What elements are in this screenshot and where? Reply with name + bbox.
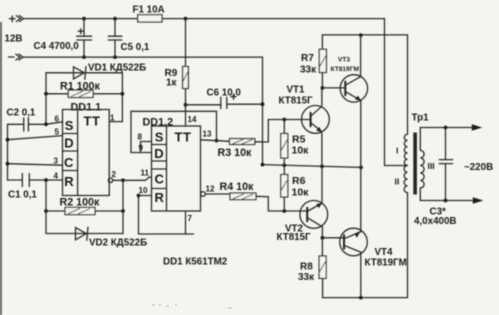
svg-text:S: S: [65, 118, 74, 133]
wire VD1/R1 left vertical: [45, 73, 47, 125]
capacitor C2: [7, 108, 48, 132]
svg-text:R7: R7: [301, 53, 314, 64]
resistor R6: [281, 165, 309, 211]
svg-text:S: S: [155, 130, 164, 145]
svg-text:9: 9: [139, 144, 144, 153]
wire upper feed line: [322, 35, 407, 134]
flip-flop DD1.2: [143, 117, 201, 212]
wire R2/VD2 right vertical: [122, 180, 124, 233]
node bus pin3: [6, 162, 10, 166]
svg-text:R4 10к: R4 10к: [220, 181, 255, 193]
svg-text:Тр1: Тр1: [412, 113, 430, 124]
svg-text:12В: 12В: [5, 34, 23, 45]
svg-text:~220В: ~220В: [464, 162, 493, 173]
svg-text:C4 4700,0: C4 4700,0: [34, 41, 80, 52]
node C5 bottom: [113, 55, 117, 59]
wire pin2 to pin11: [113, 177, 151, 180]
resistor R1: [46, 80, 122, 97]
svg-text:D: D: [64, 135, 73, 150]
svg-text:4,0х400В: 4,0х400В: [414, 216, 457, 227]
wire pin13: [215, 139, 219, 143]
svg-text:VТ3: VТ3: [338, 57, 350, 64]
terminal plus input: [10, 16, 24, 22]
svg-text:10: 10: [139, 186, 148, 195]
pin 12 bubble: [201, 192, 206, 197]
capacitor C4: [34, 19, 92, 58]
svg-text:VD1 КД522Б: VD1 КД522Б: [88, 63, 146, 74]
svg-text:VT4: VT4: [375, 247, 394, 258]
terminal minus input: [9, 54, 24, 60]
wire VD1/R1 right vertical to pin1: [121, 73, 123, 122]
svg-text:КТ815Г: КТ815Г: [277, 232, 312, 243]
svg-text:I: I: [396, 146, 398, 156]
svg-text:33к: 33к: [298, 272, 315, 283]
wire common emitter line: [263, 165, 362, 168]
svg-text:ТТ: ТТ: [84, 114, 101, 129]
wire R2/VD2 left vertical: [45, 180, 47, 234]
svg-text:R3 10к: R3 10к: [218, 147, 253, 159]
node C4 top: [82, 17, 86, 21]
svg-text:R: R: [64, 174, 74, 189]
svg-text:12: 12: [206, 185, 215, 194]
pin 2 bubble: [108, 178, 112, 182]
capacitor C5: [108, 19, 150, 58]
wire pin8 jumper: [141, 142, 152, 153]
secondary winding III: [420, 150, 424, 188]
fuse F1: [133, 4, 165, 22]
svg-text:C5 0,1: C5 0,1: [121, 42, 150, 53]
node R9 top: [184, 17, 188, 21]
resistor R3: [201, 118, 311, 160]
node pin2/VD2 vertical: [121, 178, 125, 182]
wire pin5: [8, 136, 63, 140]
svg-text:R6: R6: [292, 175, 306, 187]
wire output top: [420, 127, 475, 129]
svg-text:ТТ: ТТ: [175, 130, 192, 145]
diode VD2: [46, 227, 147, 248]
resistor R5: [281, 120, 309, 166]
svg-text:VD2 КД522Б: VD2 КД522Б: [89, 238, 147, 249]
svg-text:11: 11: [141, 169, 150, 178]
svg-text:VT1: VT1: [287, 84, 306, 95]
wire top +12V rail: [24, 18, 385, 20]
svg-text:R1 100к: R1 100к: [60, 80, 100, 92]
svg-text:C: C: [64, 155, 74, 170]
wire minus rail: [24, 57, 263, 165]
svg-text:F1 10А: F1 10А: [133, 4, 165, 15]
wire pin3: [8, 164, 63, 166]
resistor R4: [205, 181, 307, 213]
transformer Tr1: [395, 113, 435, 201]
svg-text:КТ819ГМ: КТ819ГМ: [365, 258, 407, 269]
primary winding II: [404, 166, 407, 193]
svg-text:D: D: [154, 146, 163, 161]
wire center tap feed: [385, 19, 408, 166]
transistor VT3: [322, 35, 367, 232]
node C5 top: [113, 17, 117, 21]
svg-text:C2 0,1: C2 0,1: [7, 108, 36, 119]
resistor R9: [165, 19, 189, 126]
wire left bus: [7, 124, 9, 180]
svg-text:13: 13: [203, 130, 212, 139]
svg-text:C6 10,0: C6 10,0: [207, 88, 242, 99]
svg-text:4: 4: [54, 172, 59, 181]
svg-text:3: 3: [54, 157, 59, 166]
node C4 bottom: [82, 55, 86, 59]
resistor R8: [298, 236, 326, 298]
svg-text:8: 8: [138, 133, 143, 142]
svg-text:7: 7: [188, 214, 193, 223]
svg-text:DD1.1: DD1.1: [71, 102, 102, 114]
capacitor C1: [8, 174, 48, 201]
transistor VT2: [277, 166, 328, 243]
transistor VT4: [322, 228, 406, 297]
svg-text:1к: 1к: [166, 78, 178, 89]
wire bottom segment: [323, 193, 408, 298]
resistor R7: [300, 35, 326, 90]
svg-text:R: R: [155, 190, 165, 205]
wire pin6: [46, 122, 63, 125]
resistor R2: [44, 197, 125, 215]
svg-text:5: 5: [55, 128, 60, 137]
svg-text:10к: 10к: [292, 145, 310, 157]
core: [413, 133, 417, 195]
svg-text:R2 100к: R2 100к: [60, 197, 100, 209]
svg-text:10к: 10к: [292, 187, 310, 199]
svg-text:DD1.2: DD1.2: [143, 117, 174, 129]
primary winding I: [404, 134, 407, 165]
svg-text:14: 14: [188, 115, 197, 124]
node bus pin5: [6, 138, 10, 142]
svg-text:2: 2: [112, 170, 117, 179]
svg-text:КТ819ГМ: КТ819ГМ: [331, 66, 360, 73]
flip-flop DD1.1: [63, 102, 110, 196]
diode VD1: [46, 63, 146, 80]
capacitor C6: [186, 88, 265, 109]
svg-text:C: C: [155, 172, 165, 187]
transistor VT1: [279, 84, 330, 166]
wire output bottom: [420, 200, 476, 202]
svg-text:DD1 К561ТМ2: DD1 К561ТМ2: [163, 257, 228, 268]
svg-text:33к: 33к: [300, 64, 317, 75]
node R1 left: [44, 92, 48, 96]
svg-text:C1 0,1: C1 0,1: [8, 190, 37, 201]
wire pin1: [109, 121, 122, 123]
scan edge artifact left: [0, 22, 2, 315]
svg-text:КТ815Г: КТ815Г: [279, 96, 314, 107]
wire pin10 to common: [139, 196, 194, 235]
capacitor C3: [414, 128, 457, 228]
node R1 right: [121, 92, 125, 96]
svg-text:III: III: [428, 161, 435, 171]
svg-text:II: II: [395, 177, 400, 187]
wire DD1.2 feedback loop pin13 to pin9: [131, 111, 217, 152]
wire pin4 C1 line: [29, 179, 62, 181]
